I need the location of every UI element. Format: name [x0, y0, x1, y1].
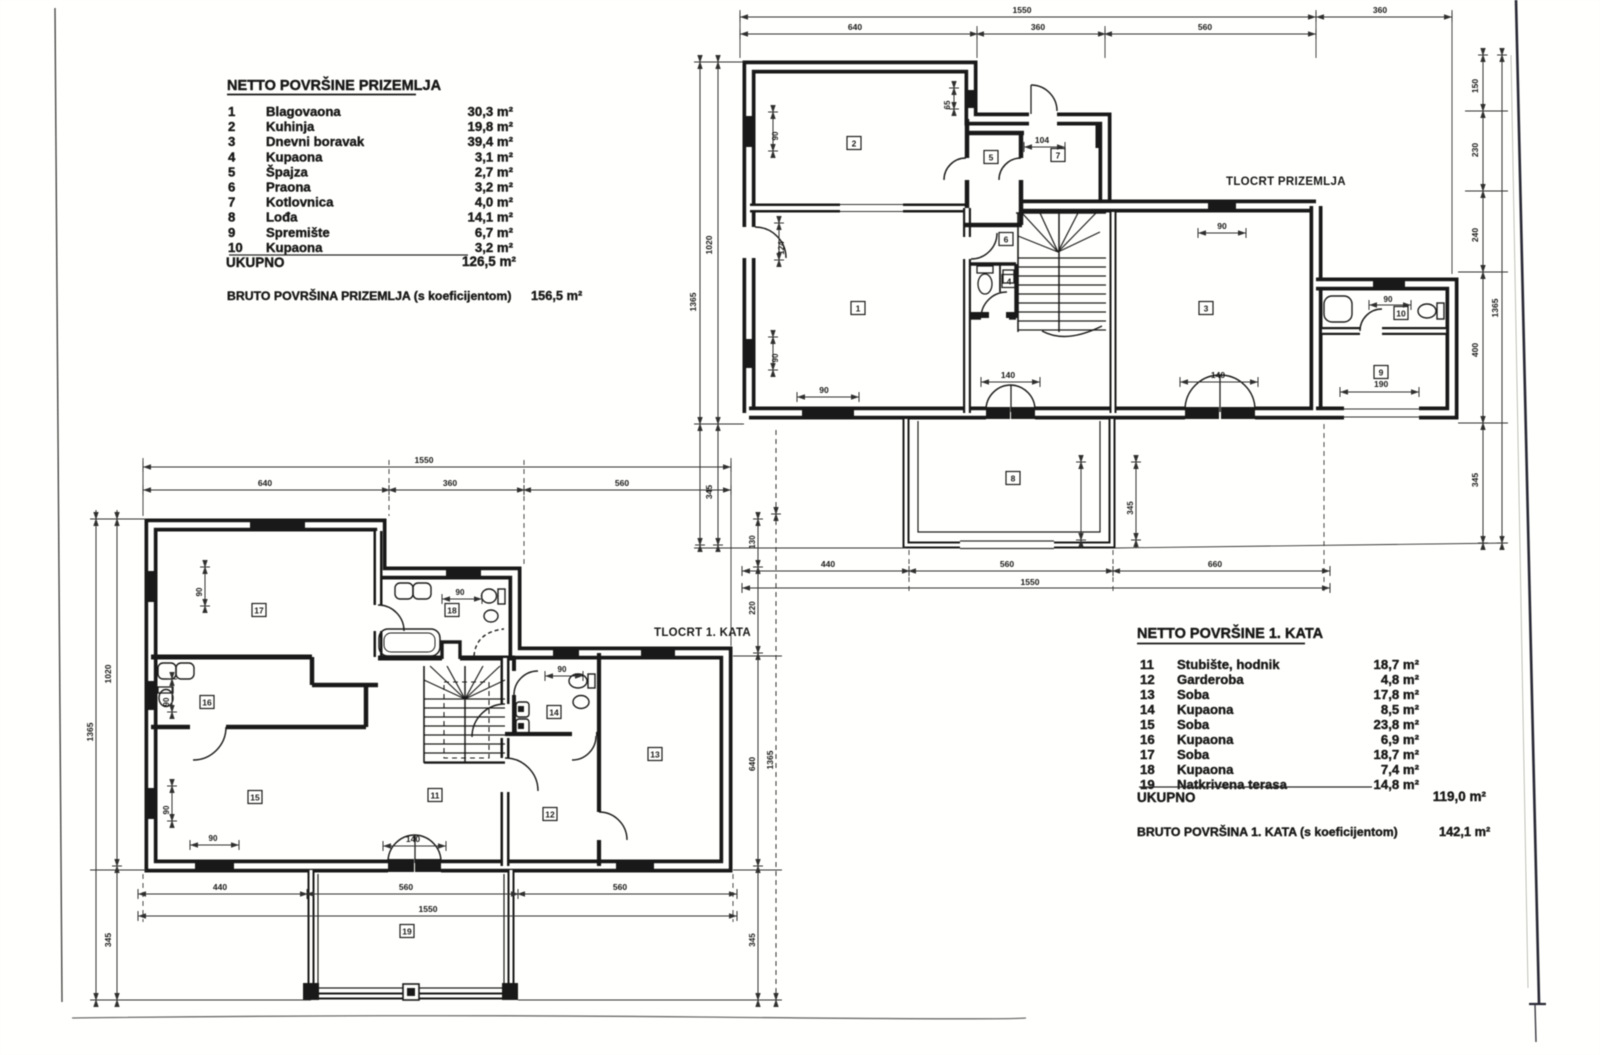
svg-text:7,4 m²: 7,4 m²	[1381, 762, 1420, 777]
svg-text:UKUPNO: UKUPNO	[226, 255, 285, 270]
svg-text:230: 230	[1470, 143, 1480, 157]
svg-text:BRUTO POVRŠINA 1. KATA (s koef: BRUTO POVRŠINA 1. KATA (s koeficijentom)	[1137, 824, 1398, 839]
svg-text:9: 9	[228, 225, 235, 240]
svg-text:90: 90	[456, 588, 465, 597]
svg-text:345: 345	[704, 485, 714, 499]
svg-text:7: 7	[1056, 151, 1061, 161]
svg-text:Špajza: Špajza	[266, 164, 308, 179]
svg-text:140: 140	[1211, 370, 1225, 380]
svg-text:1550: 1550	[415, 455, 434, 465]
svg-text:560: 560	[613, 882, 627, 892]
svg-text:7: 7	[228, 195, 235, 210]
svg-text:5: 5	[228, 164, 235, 179]
svg-text:104: 104	[1035, 135, 1049, 145]
svg-text:Dnevni boravak: Dnevni boravak	[266, 134, 365, 149]
svg-text:NETTO POVRŠINE PRIZEMLJA: NETTO POVRŠINE PRIZEMLJA	[227, 76, 442, 94]
svg-text:Blagovaona: Blagovaona	[266, 104, 341, 119]
svg-text:11: 11	[1140, 657, 1154, 672]
svg-text:8: 8	[1011, 474, 1016, 484]
svg-text:6: 6	[1004, 235, 1009, 245]
svg-text:3,2 m²: 3,2 m²	[475, 240, 514, 255]
svg-text:440: 440	[821, 559, 835, 569]
svg-text:1365: 1365	[1490, 298, 1500, 317]
svg-text:TLOCRT 1. KATA: TLOCRT 1. KATA	[654, 627, 751, 639]
svg-text:156,5 m²: 156,5 m²	[531, 288, 582, 303]
svg-text:Kupaona: Kupaona	[1177, 732, 1234, 747]
svg-text:4: 4	[1007, 277, 1012, 287]
svg-text:Soba: Soba	[1177, 717, 1210, 732]
svg-text:345: 345	[1126, 501, 1135, 515]
svg-text:3: 3	[1204, 304, 1209, 314]
svg-text:Kupaona: Kupaona	[266, 240, 323, 255]
svg-text:560: 560	[615, 478, 629, 488]
svg-text:345: 345	[748, 933, 757, 947]
svg-text:39,4 m²: 39,4 m²	[468, 134, 514, 149]
svg-text:560: 560	[1000, 559, 1014, 569]
svg-text:9: 9	[1379, 368, 1384, 378]
svg-text:4,8 m²: 4,8 m²	[1381, 672, 1420, 687]
svg-text:640: 640	[747, 757, 757, 771]
svg-text:Kupaona: Kupaona	[266, 149, 323, 164]
svg-text:90: 90	[558, 665, 567, 674]
svg-text:400: 400	[1470, 343, 1480, 357]
svg-text:640: 640	[258, 478, 272, 488]
svg-text:18: 18	[1140, 762, 1155, 777]
svg-text:3,1 m²: 3,1 m²	[475, 149, 514, 164]
svg-text:14: 14	[1140, 702, 1155, 717]
svg-text:13: 13	[650, 750, 660, 760]
svg-text:Kupaona: Kupaona	[1177, 762, 1234, 777]
svg-text:660: 660	[1208, 559, 1222, 569]
svg-text:440: 440	[213, 882, 227, 892]
svg-text:Kuhinja: Kuhinja	[266, 119, 315, 134]
svg-text:18: 18	[447, 606, 457, 616]
svg-text:5: 5	[989, 153, 994, 163]
svg-text:90: 90	[162, 697, 171, 706]
svg-text:Kotlovnica: Kotlovnica	[266, 195, 334, 210]
svg-text:90: 90	[771, 353, 780, 362]
svg-text:BRUTO POVRŠINA PRIZEMLJA (s ko: BRUTO POVRŠINA PRIZEMLJA (s koeficijento…	[227, 288, 511, 303]
svg-text:90: 90	[1384, 295, 1393, 304]
svg-text:17: 17	[254, 606, 264, 616]
svg-text:Praona: Praona	[266, 180, 311, 195]
svg-text:Garderoba: Garderoba	[1177, 672, 1244, 687]
svg-text:17,8 m²: 17,8 m²	[1374, 687, 1420, 702]
svg-text:2,7 m²: 2,7 m²	[475, 164, 514, 179]
svg-text:4: 4	[228, 149, 236, 164]
svg-text:640: 640	[848, 22, 862, 32]
svg-text:UKUPNO: UKUPNO	[1137, 790, 1196, 805]
svg-text:6: 6	[228, 180, 235, 195]
svg-text:14: 14	[549, 708, 559, 718]
svg-text:1: 1	[856, 304, 861, 314]
svg-text:12: 12	[545, 810, 555, 820]
svg-text:19,8 m²: 19,8 m²	[468, 119, 514, 134]
svg-text:Spremište: Spremište	[266, 225, 330, 240]
svg-text:2: 2	[228, 119, 235, 134]
svg-text:150: 150	[1470, 79, 1480, 93]
svg-text:6,7 m²: 6,7 m²	[475, 225, 514, 240]
svg-text:90: 90	[1217, 221, 1227, 231]
svg-text:560: 560	[399, 882, 413, 892]
svg-text:Soba: Soba	[1177, 747, 1210, 762]
svg-text:119,0 m²: 119,0 m²	[1433, 789, 1487, 804]
svg-text:90: 90	[819, 385, 829, 395]
svg-text:140: 140	[1001, 370, 1015, 380]
svg-text:Lođa: Lođa	[266, 210, 298, 225]
svg-text:15: 15	[1140, 717, 1155, 732]
svg-text:360: 360	[443, 478, 457, 488]
svg-text:2: 2	[852, 139, 857, 149]
svg-text:15: 15	[250, 793, 260, 803]
svg-text:10: 10	[1396, 309, 1406, 319]
svg-text:130: 130	[748, 535, 757, 549]
svg-text:90: 90	[162, 805, 171, 814]
svg-text:17: 17	[1140, 747, 1155, 762]
svg-text:190: 190	[1374, 379, 1388, 389]
svg-text:126,5 m²: 126,5 m²	[462, 254, 517, 269]
svg-text:3: 3	[228, 134, 235, 149]
svg-text:Stubište, hodnik: Stubište, hodnik	[1177, 657, 1280, 672]
svg-text:6,9 m²: 6,9 m²	[1381, 732, 1420, 747]
svg-text:23,8 m²: 23,8 m²	[1374, 717, 1420, 732]
svg-text:10: 10	[228, 240, 243, 255]
svg-text:220: 220	[748, 601, 757, 615]
svg-text:14,1 m²: 14,1 m²	[468, 210, 514, 225]
svg-text:240: 240	[1470, 228, 1480, 242]
svg-text:Kupaona: Kupaona	[1177, 702, 1234, 717]
svg-text:16: 16	[1140, 732, 1155, 747]
svg-text:90: 90	[209, 834, 218, 843]
svg-text:11: 11	[431, 791, 440, 801]
svg-text:360: 360	[1373, 5, 1387, 15]
svg-text:345: 345	[1470, 473, 1480, 487]
svg-text:560: 560	[1198, 22, 1212, 32]
svg-text:30,3 m²: 30,3 m²	[468, 104, 514, 119]
svg-text:345: 345	[103, 933, 113, 947]
svg-text:18,7 m²: 18,7 m²	[1374, 747, 1420, 762]
svg-text:13: 13	[1140, 687, 1155, 702]
svg-text:1550: 1550	[419, 904, 438, 914]
svg-text:3,2 m²: 3,2 m²	[475, 180, 514, 195]
svg-text:4,0 m²: 4,0 m²	[475, 195, 514, 210]
svg-text:142,1 m²: 142,1 m²	[1439, 824, 1490, 839]
svg-text:1020: 1020	[103, 664, 113, 683]
svg-text:90: 90	[195, 587, 204, 596]
svg-text:360: 360	[1031, 22, 1045, 32]
svg-text:1550: 1550	[1013, 5, 1032, 15]
svg-text:19: 19	[402, 927, 412, 937]
svg-text:Soba: Soba	[1177, 687, 1210, 702]
svg-text:1020: 1020	[704, 235, 714, 254]
svg-text:1550: 1550	[1021, 577, 1040, 587]
svg-text:12: 12	[1140, 672, 1155, 687]
svg-text:1365: 1365	[765, 750, 775, 769]
svg-text:1: 1	[228, 104, 235, 119]
svg-text:18,7 m²: 18,7 m²	[1374, 657, 1420, 672]
svg-text:NETTO POVRŠINE 1. KATA: NETTO POVRŠINE 1. KATA	[1137, 624, 1324, 642]
svg-text:16: 16	[202, 698, 212, 708]
svg-text:124: 124	[777, 241, 786, 255]
svg-text:8: 8	[228, 210, 235, 225]
svg-text:65: 65	[943, 100, 952, 109]
svg-text:1365: 1365	[688, 292, 698, 311]
svg-text:8,5 m²: 8,5 m²	[1381, 702, 1420, 717]
svg-text:1365: 1365	[85, 722, 95, 741]
svg-text:TLOCRT PRIZEMLJA: TLOCRT PRIZEMLJA	[1226, 176, 1346, 188]
svg-text:140: 140	[406, 834, 420, 844]
svg-text:14,8 m²: 14,8 m²	[1374, 777, 1420, 792]
svg-text:90: 90	[771, 131, 780, 140]
